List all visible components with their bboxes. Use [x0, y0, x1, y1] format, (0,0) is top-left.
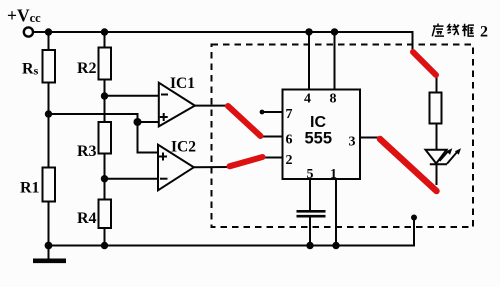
IC2 plus sign	[159, 153, 167, 161]
wire Rs to R1	[48, 83, 50, 168]
svg-text:R2: R2	[77, 60, 97, 77]
junction dot R3/R4 tap	[101, 175, 108, 182]
junction dot R2/R3 tap	[101, 92, 108, 99]
svg-text:R3: R3	[77, 143, 97, 160]
wire R1 to bottom rail	[48, 202, 50, 246]
junction dot R4 bottom	[101, 242, 108, 249]
junction dot top rail pin8	[331, 28, 338, 35]
resistor R2	[99, 48, 112, 80]
junction dot top rail R2	[101, 28, 108, 35]
LED D1	[426, 148, 462, 185]
wire Vcc to R2	[104, 32, 106, 48]
op-amp IC2	[158, 145, 194, 191]
wire bottom rail	[49, 218, 415, 246]
glyph 框	[462, 24, 474, 37]
IC1 minus sign	[161, 94, 168, 96]
wire R3 to R4	[104, 154, 106, 200]
junction dot top rail Rs	[45, 28, 52, 35]
wire R2 to R3	[104, 80, 106, 123]
svg-text:2: 2	[480, 24, 488, 41]
wire Vcc to Rs	[48, 32, 50, 50]
svg-text:2: 2	[286, 153, 293, 168]
wire R4 to bottom rail	[104, 228, 106, 246]
red wire pin3 to LED	[380, 139, 437, 191]
wire pin 1 down	[335, 179, 337, 246]
IC1 plus sign	[160, 113, 168, 121]
svg-text:7: 7	[286, 107, 293, 122]
svg-text:8: 8	[330, 92, 337, 107]
junction dot plus node	[134, 118, 142, 126]
resistor R1	[43, 168, 56, 202]
svg-text:4: 4	[304, 92, 311, 107]
wire red end to pin 6	[259, 136, 283, 138]
junction dot node A	[45, 110, 52, 117]
resistor lamp	[430, 93, 442, 124]
junction dot pin1 bottom	[332, 242, 339, 249]
wire pin 8 to top rail	[334, 32, 336, 90]
wire node A to IC1+ and IC2+	[49, 114, 159, 153]
svg-text:5: 5	[307, 167, 314, 182]
wire red end to pin 2	[262, 157, 283, 159]
svg-text:R4: R4	[77, 210, 97, 227]
op-amp IC1	[159, 83, 195, 127]
wire top rail	[33, 32, 412, 52]
svg-text:6: 6	[286, 133, 293, 148]
wire R3/R4 tap to IC2 minus	[105, 178, 159, 180]
svg-text:IC: IC	[310, 114, 326, 131]
Vcc terminal circle	[24, 27, 33, 36]
resistor R3	[99, 122, 112, 154]
svg-text:IC1: IC1	[170, 75, 195, 92]
resistor R4	[99, 200, 112, 229]
svg-text:555: 555	[305, 130, 333, 148]
wire right branch to lamp resistor	[436, 74, 438, 93]
wire pin 4 to top rail	[308, 32, 310, 90]
resistor Rs	[43, 50, 56, 83]
svg-text:R1: R1	[20, 180, 40, 197]
red wire IC1 out to pin6	[228, 106, 261, 136]
capacitor C	[297, 211, 326, 216]
IC 555 box	[283, 90, 361, 180]
svg-text:1: 1	[330, 167, 337, 182]
label 虚线框 (drawn glyphs)	[432, 24, 474, 37]
glyph 线	[448, 24, 459, 35]
svg-text:IC2: IC2	[171, 139, 196, 156]
wire pin 7 stub	[262, 111, 283, 113]
terminal dot right stub	[411, 215, 417, 221]
terminal dot pin7	[260, 110, 265, 115]
junction dot ground	[45, 242, 53, 250]
wire pin 3 stub	[360, 137, 380, 139]
red wire top rail to lamp resistor	[413, 52, 436, 75]
glyph 虚	[432, 24, 444, 37]
wire resistor to LED	[436, 124, 438, 151]
wire IC1 output	[195, 105, 228, 107]
wire IC2 output	[194, 166, 229, 168]
wire pin 5 down	[309, 179, 311, 246]
wire R2/R3 tap to IC1 minus	[105, 95, 160, 97]
ground	[48, 246, 50, 260]
IC2 minus sign	[160, 178, 168, 180]
dashed box 虚线框2	[212, 45, 474, 228]
junction dot pin5 bottom	[306, 242, 313, 249]
junction dot top rail pin4	[305, 28, 312, 35]
red wire IC2 out to pin2	[230, 157, 263, 166]
svg-text:3: 3	[349, 135, 356, 150]
svg-text:Rs: Rs	[22, 61, 39, 78]
